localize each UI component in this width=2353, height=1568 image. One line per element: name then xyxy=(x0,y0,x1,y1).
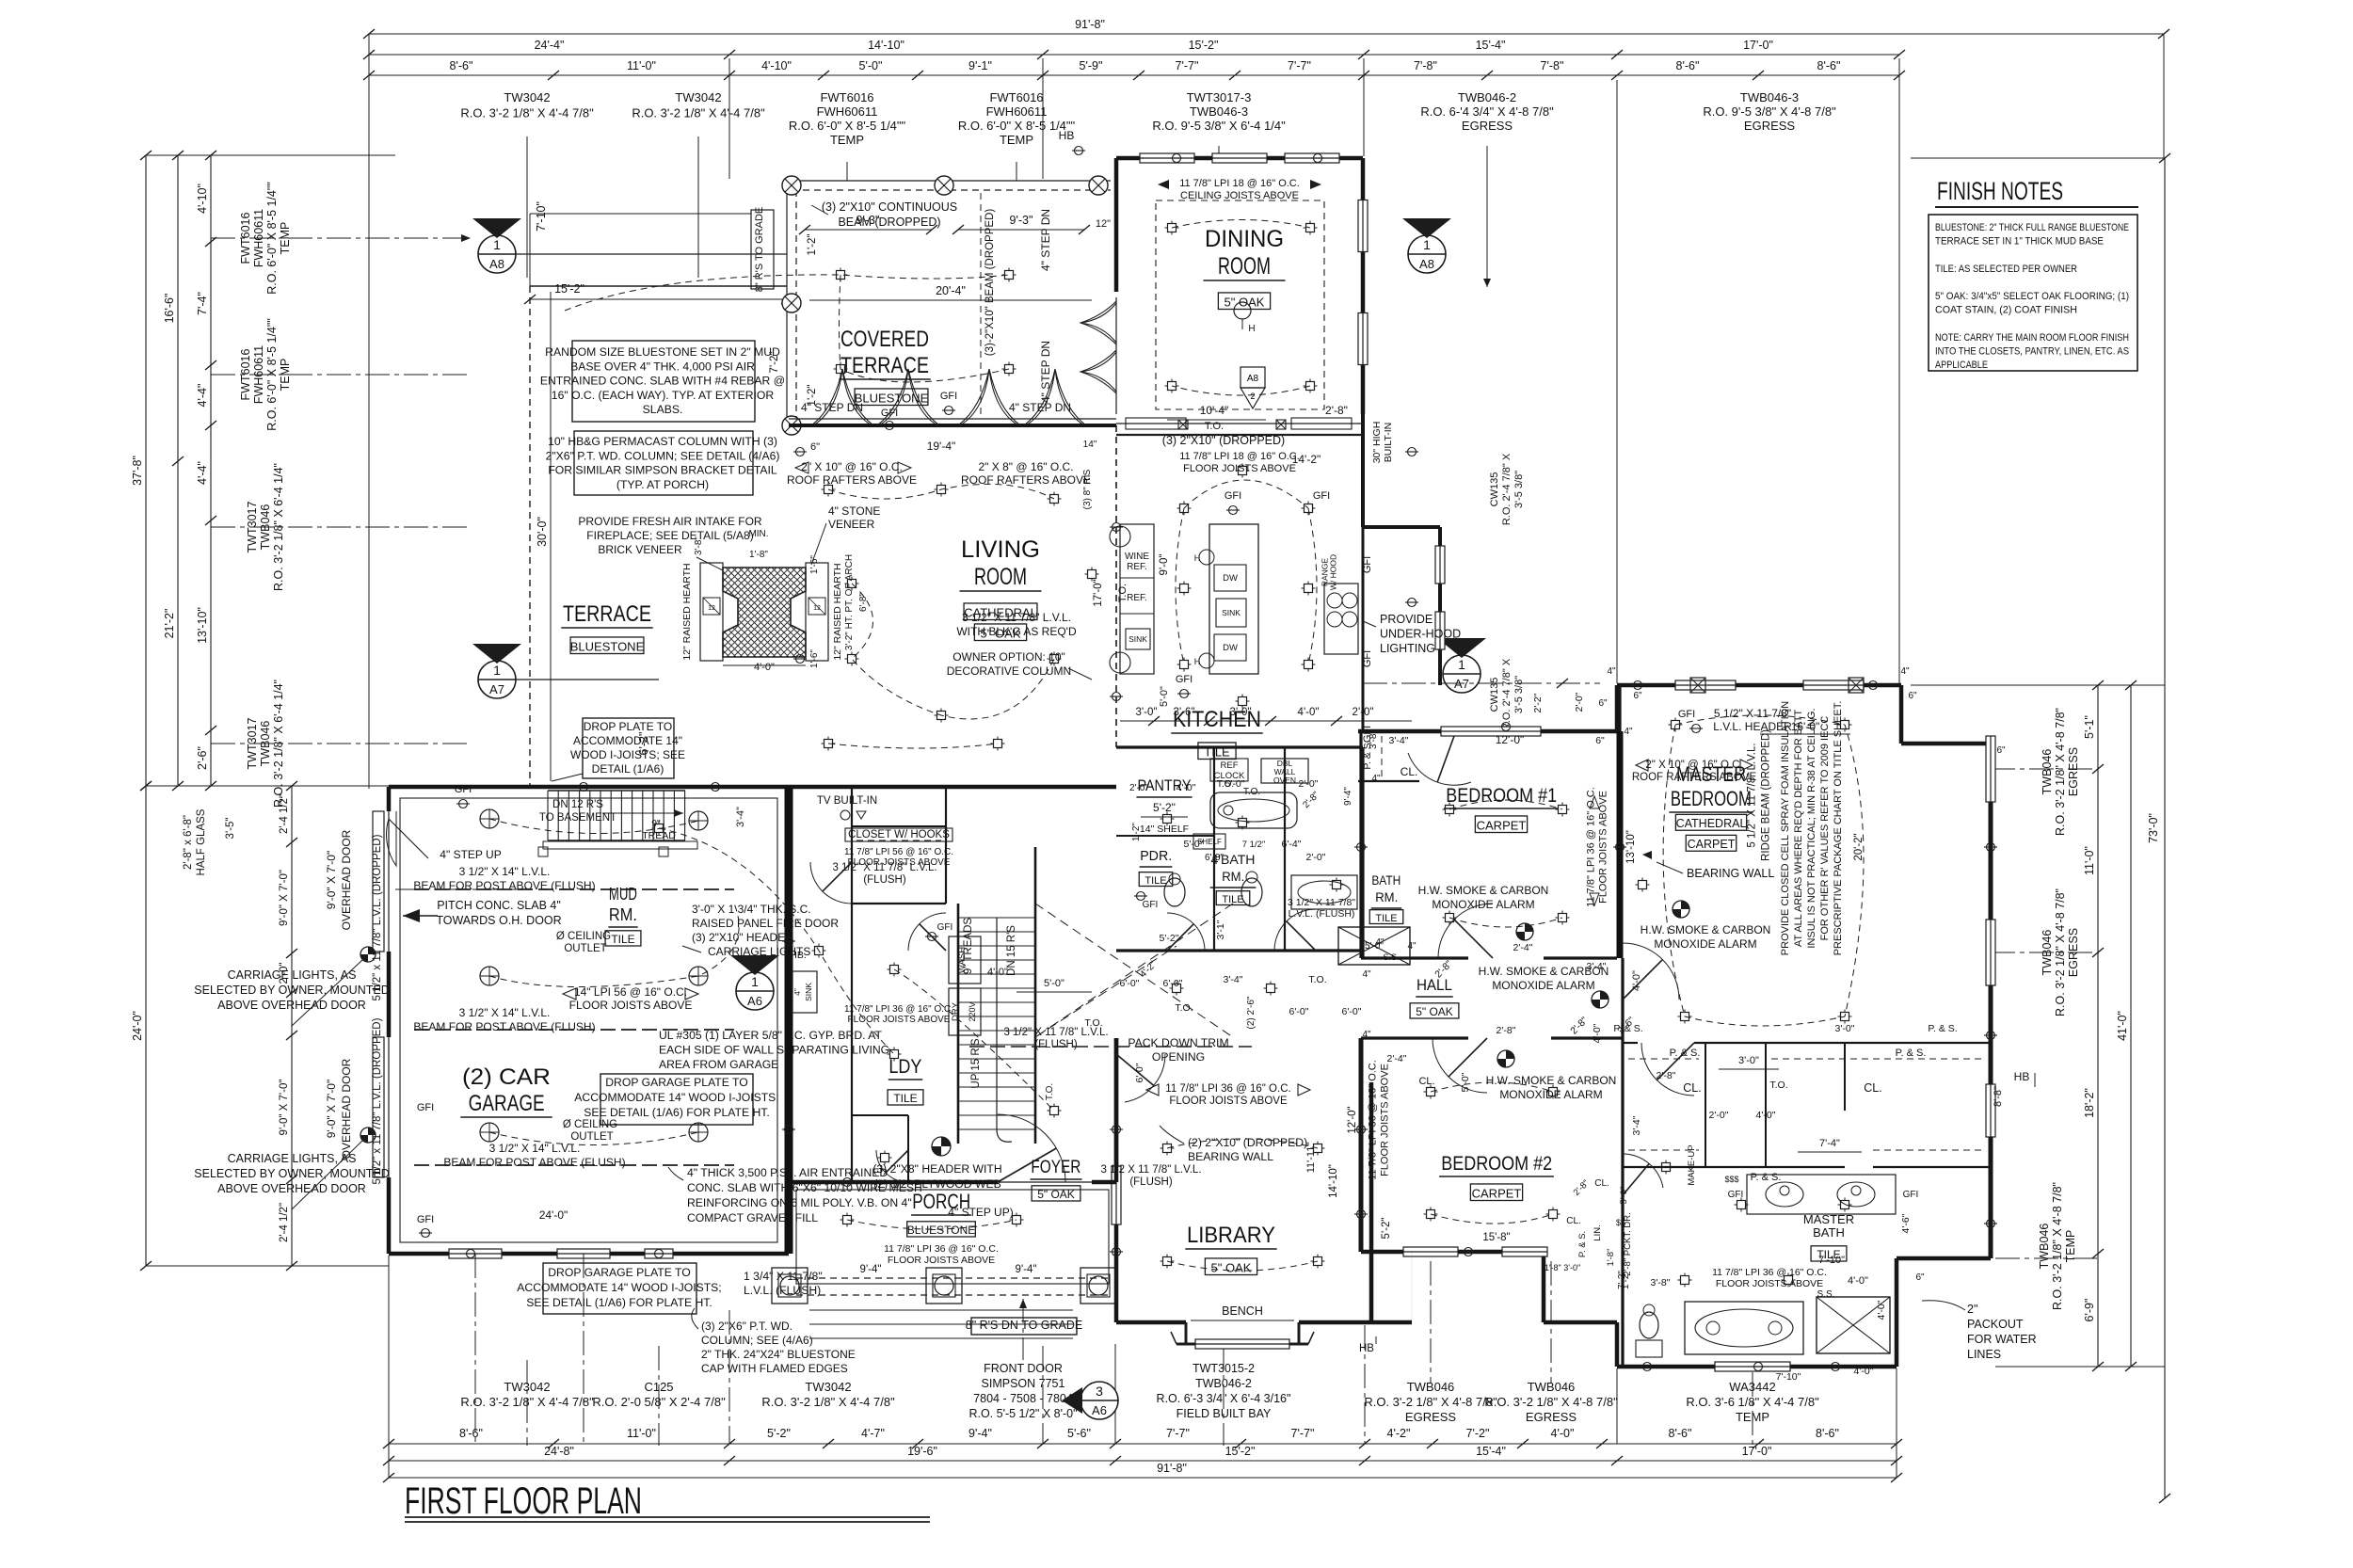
section marker 1/A8 right xyxy=(1408,235,1446,273)
wall master closet south xyxy=(1623,1166,1845,1168)
svg-text:FINISH NOTES: FINISH NOTES xyxy=(1937,177,2063,205)
svg-text:PANTRY: PANTRY xyxy=(1137,776,1191,794)
left top horizontal tie xyxy=(146,154,395,156)
svg-text:P. & S.: P. & S. xyxy=(1751,1172,1782,1183)
svg-text:21'-2": 21'-2" xyxy=(163,609,176,639)
svg-text:16" O.C. (EACH WAY). TYP. AT E: 16" O.C. (EACH WAY). TYP. AT EXTERIOR xyxy=(552,389,775,402)
wall mud-ldy top xyxy=(789,785,1116,790)
svg-text:2'-8": 2'-8" xyxy=(1325,404,1348,417)
wiring dining xyxy=(1156,200,1324,409)
svg-text:24'-0": 24'-0" xyxy=(131,1011,144,1041)
porch slab xyxy=(796,1190,1109,1284)
lights living room xyxy=(824,486,833,494)
svg-text:RM.: RM. xyxy=(1375,889,1398,904)
svg-text:4'-6": 4'-6" xyxy=(1900,1213,1912,1233)
svg-text:3'-0": 3'-0" xyxy=(1136,707,1158,718)
svg-text:H: H xyxy=(1248,324,1255,334)
svg-text:SEE DETAIL (1/A6) FOR PLATE HT: SEE DETAIL (1/A6) FOR PLATE HT. xyxy=(584,1106,770,1119)
mud sink xyxy=(792,971,817,1013)
wall closet hooks xyxy=(852,825,946,827)
svg-text:T.O.: T.O. xyxy=(1205,421,1224,432)
svg-text:(2) 2"X10" (DROPPED): (2) 2"X10" (DROPPED) xyxy=(1188,1136,1307,1149)
svg-text:BEAM (DROPPED): BEAM (DROPPED) xyxy=(838,216,940,229)
svg-text:11 7/8" LPI 18 @ 16" O.C.: 11 7/8" LPI 18 @ 16" O.C. xyxy=(1179,451,1300,462)
grade steps box xyxy=(751,210,774,289)
dimension chain left row2 xyxy=(177,155,179,786)
svg-text:GFI: GFI xyxy=(940,391,957,402)
svg-text:11 7/8" LPI 36 @ 16" O.C.: 11 7/8" LPI 36 @ 16" O.C. xyxy=(884,1243,999,1255)
svg-text:4": 4" xyxy=(1900,666,1910,677)
svg-text:2'-4": 2'-4" xyxy=(1387,1053,1407,1064)
svg-text:7'-4": 7'-4" xyxy=(196,292,209,315)
svg-text:7'-7": 7'-7" xyxy=(1288,59,1311,72)
window dining top 1 xyxy=(1140,153,1194,163)
svg-text:CW135: CW135 xyxy=(1489,678,1500,712)
svg-text:GFI: GFI xyxy=(1678,709,1695,720)
svg-text:BATH: BATH xyxy=(1371,872,1401,888)
svg-text:6'-0": 6'-0" xyxy=(1120,978,1140,989)
svg-text:3'-4": 3'-4" xyxy=(735,807,746,827)
svg-text:17'-0": 17'-0" xyxy=(1093,579,1104,606)
svg-text:9" TREADS: 9" TREADS xyxy=(963,918,974,974)
wall mud-ldy divider xyxy=(851,787,853,1035)
svg-text:2" X 10" @ 16" O.C.: 2" X 10" @ 16" O.C. xyxy=(1645,760,1742,771)
column C5 xyxy=(782,416,801,435)
svg-text:14": 14" xyxy=(1083,440,1097,450)
svg-text:1: 1 xyxy=(751,974,759,989)
svg-text:17'-0": 17'-0" xyxy=(1743,39,1773,52)
wall library xyxy=(1114,1038,1119,1322)
svg-text:GFI: GFI xyxy=(1362,650,1373,667)
svg-text:24'-8": 24'-8" xyxy=(544,1445,574,1458)
svg-text:BUILT-IN: BUILT-IN xyxy=(1383,423,1394,462)
door arch living north 2 xyxy=(958,369,1086,425)
svg-text:CARRIAGE LIGHTS, AS: CARRIAGE LIGHTS, AS xyxy=(228,968,357,982)
svg-text:7'-8": 7'-8" xyxy=(1414,59,1437,72)
svg-text:11 7/8" LPI 56 @ 16" O.C.: 11 7/8" LPI 56 @ 16" O.C. xyxy=(844,847,953,857)
svg-text:GFI: GFI xyxy=(417,1214,434,1225)
wall bedroom1 west xyxy=(1359,731,1362,958)
kitchen counter left xyxy=(1120,524,1154,674)
svg-text:FWH60611: FWH60611 xyxy=(986,104,1048,119)
svg-text:INSUL IS NOT PRACTICAL; MIN R-: INSUL IS NOT PRACTICAL; MIN R-38 AT CEIL… xyxy=(1806,708,1817,948)
svg-text:(3) 2"X8" HEADER WITH: (3) 2"X8" HEADER WITH xyxy=(872,1162,1001,1176)
svg-text:W/ HOOD: W/ HOOD xyxy=(1329,554,1338,590)
svg-text:BENCH: BENCH xyxy=(1222,1304,1263,1318)
svg-text:5" OAK: 3/4"x5" SELECT OAK FLO: 5" OAK: 3/4"x5" SELECT OAK FLOORING; (1) xyxy=(1935,291,2129,302)
fireplace hearth right xyxy=(806,563,828,661)
porch steps xyxy=(809,1309,1073,1311)
svg-text:SELECTED BY OWNER, MOUNTED: SELECTED BY OWNER, MOUNTED xyxy=(194,1167,389,1180)
svg-text:7'-10": 7'-10" xyxy=(535,201,548,232)
terrace boundary xyxy=(530,285,787,287)
wall stairs left xyxy=(957,904,960,1144)
svg-text:HB: HB xyxy=(1359,1343,1374,1354)
svg-text:1 3/4" X 11 7/8": 1 3/4" X 11 7/8" xyxy=(744,1270,823,1283)
svg-text:CW135: CW135 xyxy=(1489,472,1500,507)
carriage light symbol 1 xyxy=(360,947,376,962)
svg-text:PDR.: PDR. xyxy=(1140,848,1172,864)
window dining top 3 xyxy=(1285,153,1339,163)
svg-text:A8: A8 xyxy=(1419,257,1434,271)
svg-text:4": 4" xyxy=(1407,941,1417,952)
svg-text:4": 4" xyxy=(792,988,802,996)
svg-text:GFI: GFI xyxy=(1143,900,1159,910)
svg-text:COAT STAIN, (2) COAT FINISH: COAT STAIN, (2) COAT FINISH xyxy=(1935,305,2077,316)
svg-text:FWT6016: FWT6016 xyxy=(989,90,1043,104)
svg-text:AREA FROM GARAGE: AREA FROM GARAGE xyxy=(659,1058,778,1071)
svg-text:8'-6": 8'-6" xyxy=(459,1427,483,1440)
note random bluestone xyxy=(572,341,755,422)
svg-text:R.O. 3'-2 1/8" X 4'-8 7/8": R.O. 3'-2 1/8" X 4'-8 7/8" xyxy=(2054,708,2067,836)
window library west xyxy=(1112,1166,1121,1224)
section marker 1/A7 right xyxy=(1443,655,1481,693)
door foyer closet xyxy=(876,1150,908,1182)
svg-text:FOR SIMILAR SIMPSON BRACKET D: FOR SIMILAR SIMPSON BRACKET DETAIL xyxy=(548,464,777,477)
wiring living xyxy=(828,484,1054,748)
svg-text:3'-5 3/8": 3'-5 3/8" xyxy=(1513,471,1525,508)
svg-text:2'-4 1/2": 2'-4 1/2" xyxy=(279,1203,290,1242)
svg-text:37'-8": 37'-8" xyxy=(131,456,144,486)
svg-text:10'-4": 10'-4" xyxy=(1200,404,1229,417)
svg-text:1: 1 xyxy=(1423,237,1431,252)
svg-text:2'-4": 2'-4" xyxy=(1513,942,1533,953)
svg-text:14'-10": 14'-10" xyxy=(1328,1164,1339,1198)
window master north 2 xyxy=(1803,680,1864,690)
svg-text:18'-2": 18'-2" xyxy=(2083,1088,2096,1118)
svg-text:S.S.: S.S. xyxy=(1817,1289,1835,1300)
wall bedroom2 west xyxy=(1359,1038,1364,1252)
svg-text:3 1/2" X 14" L.V.L.: 3 1/2" X 14" L.V.L. xyxy=(459,865,551,878)
svg-text:5 1/2" X 11 7/8" L.V.L.: 5 1/2" X 11 7/8" L.V.L. xyxy=(1747,743,1758,847)
svg-text:PACK DOWN TRIM: PACK DOWN TRIM xyxy=(1128,1036,1228,1049)
svg-text:2'-0": 2'-0" xyxy=(1299,778,1319,790)
svg-text:EGRESS: EGRESS xyxy=(1405,1410,1457,1424)
dimension chain left 24'-0" xyxy=(145,786,147,1266)
svg-text:GFI: GFI xyxy=(1903,1190,1919,1200)
window bedroom2 south 1 xyxy=(1403,1247,1458,1256)
svg-text:BLUESTONE: BLUESTONE xyxy=(907,1224,975,1237)
svg-text:GFI: GFI xyxy=(1362,556,1373,573)
covered terrace beam left xyxy=(786,185,788,425)
svg-text:AT ALL AREAS WHERE REQ'D DEPTH: AT ALL AREAS WHERE REQ'D DEPTH FOR BATT xyxy=(1793,710,1804,948)
svg-text:13'-10": 13'-10" xyxy=(1625,830,1637,864)
svg-text:3'-4": 3'-4" xyxy=(1587,961,1607,972)
fireplace masonry xyxy=(723,568,806,657)
svg-text:11 7/8" LPI 18 @ 16" O.C.: 11 7/8" LPI 18 @ 16" O.C. xyxy=(1179,178,1300,189)
svg-text:(3) 2"X10" (DROPPED): (3) 2"X10" (DROPPED) xyxy=(1162,434,1285,447)
svg-text:4": 4" xyxy=(1371,774,1381,784)
finish notes box xyxy=(1929,215,2137,371)
svg-text:TILE: TILE xyxy=(1375,913,1397,924)
svg-text:5 1/2" x 11 7/8" L.V.L. (DROPP: 5 1/2" x 11 7/8" L.V.L. (DROPPED) xyxy=(372,1017,383,1184)
svg-text:1: 1 xyxy=(493,237,501,252)
svg-text:TO BASEMENT: TO BASEMENT xyxy=(539,812,616,824)
svg-text:FLOOR JOISTS ABOVE: FLOOR JOISTS ABOVE xyxy=(888,1255,995,1266)
svg-text:11 7/8" LPI 36 @ 16" O.C.: 11 7/8" LPI 36 @ 16" O.C. xyxy=(1165,1083,1290,1095)
svg-text:5'-0": 5'-0" xyxy=(1460,1072,1471,1092)
svg-text:DROP GARAGE PLATE TO: DROP GARAGE PLATE TO xyxy=(548,1266,691,1279)
pantry fixtures xyxy=(1210,759,1248,781)
svg-text:CEILING JOISTS ABOVE: CEILING JOISTS ABOVE xyxy=(1180,190,1299,201)
svg-text:14" SHELF: 14" SHELF xyxy=(1140,824,1189,835)
svg-text:BASE OVER 4" THK. 4,000 PSI AI: BASE OVER 4" THK. 4,000 PSI AIR xyxy=(570,360,755,373)
bedroom1 closet strip xyxy=(1358,780,1419,782)
svg-text:TWB046-3: TWB046-3 xyxy=(1190,104,1248,119)
svg-text:T.O.: T.O. xyxy=(1117,584,1128,602)
svg-text:HB: HB xyxy=(2014,1070,2030,1083)
svg-text:4'-0": 4'-0" xyxy=(1854,1366,1874,1377)
hall swing cross lines xyxy=(1035,904,1233,1037)
lights mudldy xyxy=(655,824,664,833)
svg-text:2"X6" P.T. WD. COLUMN; SEE DET: 2"X6" P.T. WD. COLUMN; SEE DETAIL (4/A6) xyxy=(546,449,780,462)
svg-text:TILE: TILE xyxy=(893,1092,917,1105)
svg-text:CL.: CL. xyxy=(1864,1081,1881,1095)
svg-text:6'-0": 6'-0" xyxy=(1134,1063,1145,1082)
svg-text:BLUESTONE: BLUESTONE xyxy=(570,639,645,653)
svg-text:CATHEDRAL: CATHEDRAL xyxy=(1676,817,1747,830)
svg-text:RANDOM SIZE BLUESTONE SET IN 2: RANDOM SIZE BLUESTONE SET IN 2" MUD xyxy=(545,345,780,359)
svg-text:BEARING WALL: BEARING WALL xyxy=(1188,1150,1273,1163)
svg-text:3'-5 3/8": 3'-5 3/8" xyxy=(1513,676,1525,713)
wall bedroom2 south xyxy=(1361,1250,1544,1255)
svg-text:T.O.: T.O. xyxy=(1175,1002,1193,1014)
svg-text:1'-6": 1'-6" xyxy=(809,649,820,668)
svg-text:4": 4" xyxy=(1607,666,1616,677)
svg-text:6": 6" xyxy=(1915,1272,1925,1283)
svg-text:9'-0" X 7'-0": 9'-0" X 7'-0" xyxy=(325,851,338,909)
svg-text:TREAD: TREAD xyxy=(642,830,676,841)
window kitchen right 2 xyxy=(1435,612,1445,649)
svg-text:R.O. 5'-5 1/2" X 8'-0": R.O. 5'-5 1/2" X 8'-0" xyxy=(968,1407,1077,1420)
svg-text:14'-2": 14'-2" xyxy=(1292,453,1321,466)
svg-text:DROP GARAGE PLATE TO: DROP GARAGE PLATE TO xyxy=(605,1076,748,1089)
svg-text:16'-0": 16'-0" xyxy=(1791,720,1820,733)
svg-text:UNDER-HOOD: UNDER-HOOD xyxy=(1380,628,1461,641)
dimension chain bottom row2 xyxy=(389,1460,1897,1462)
svg-text:4'-4": 4'-4" xyxy=(196,461,209,485)
lights bed2 xyxy=(1427,1088,1435,1096)
svg-text:9'-4": 9'-4" xyxy=(968,1427,992,1440)
master bath fixtures xyxy=(1685,1302,1803,1354)
svg-text:7'-7": 7'-7" xyxy=(1291,1427,1315,1440)
svg-text:A6: A6 xyxy=(747,994,762,1008)
svg-text:12" RAISED HEARTH: 12" RAISED HEARTH xyxy=(681,563,693,660)
svg-text:BATH: BATH xyxy=(1813,1225,1845,1240)
svg-text:30'-0": 30'-0" xyxy=(536,517,549,547)
svg-text:DN 15 R'S: DN 15 R'S xyxy=(1006,925,1017,976)
svg-text:11 7/8" LPI 36 @ 16" O.C.: 11 7/8" LPI 36 @ 16" O.C. xyxy=(1368,1060,1379,1180)
svg-text:REF: REF xyxy=(1221,760,1239,771)
svg-text:GFI: GFI xyxy=(937,922,953,933)
library bay xyxy=(1185,1322,1188,1344)
svg-text:CARPET: CARPET xyxy=(1472,1186,1522,1200)
svg-text:FLOOR JOISTS ABOVE: FLOOR JOISTS ABOVE xyxy=(1380,1064,1391,1176)
svg-text:15'-4": 15'-4" xyxy=(1476,39,1506,52)
porch column 1 xyxy=(772,1268,808,1304)
svg-text:5 1/2" x 11 7/8" L.V.L. (DROPP: 5 1/2" x 11 7/8" L.V.L. (DROPPED) xyxy=(372,834,383,1000)
svg-text:24'-0": 24'-0" xyxy=(539,1208,568,1222)
svg-text:4" STEP UP: 4" STEP UP xyxy=(440,848,501,861)
lights dining xyxy=(1168,224,1176,232)
svg-text:2'-2": 2'-2" xyxy=(1532,693,1544,712)
svg-text:4'-0": 4'-0" xyxy=(1756,1110,1776,1121)
dimension chain left garage xyxy=(291,786,293,1266)
svg-text:H: H xyxy=(1194,553,1201,563)
wall bath west-step xyxy=(1615,1322,1620,1367)
lights bed1 xyxy=(1446,806,1454,814)
svg-text:ABOVE OVERHEAD DOOR: ABOVE OVERHEAD DOOR xyxy=(217,1182,366,1195)
wall bath divider 1 xyxy=(1213,747,1215,951)
svg-text:11'-11": 11'-11" xyxy=(1305,1143,1317,1174)
svg-text:6": 6" xyxy=(1598,698,1608,709)
dimension chain top overall 91'-8" xyxy=(369,33,2164,35)
svg-text:GARAGE: GARAGE xyxy=(469,1091,545,1116)
lights master xyxy=(1672,721,1680,729)
svg-text:A6: A6 xyxy=(1092,1403,1107,1417)
porch column 2 xyxy=(926,1268,962,1304)
svg-text:9'-4": 9'-4" xyxy=(1016,1264,1037,1275)
svg-text:P. & S.: P. & S. xyxy=(1896,1048,1927,1059)
svg-text:8'-6": 8'-6" xyxy=(1676,59,1700,72)
garage inner line xyxy=(400,798,777,1242)
svg-text:30" HIGH: 30" HIGH xyxy=(1371,422,1383,464)
section marker 1/A6 garage xyxy=(736,972,774,1010)
column C2 xyxy=(935,176,953,195)
dimension chain top row 2 xyxy=(369,54,1899,56)
window garage bottom 1 xyxy=(449,1249,502,1258)
stair main xyxy=(958,917,1035,919)
svg-text:4" STEP UP): 4" STEP UP) xyxy=(948,1206,1013,1219)
wall bedroom1-master bearing xyxy=(1617,731,1624,958)
svg-text:EACH SIDE OF WALL SEPARATING L: EACH SIDE OF WALL SEPARATING LIVING xyxy=(659,1044,889,1057)
lights porch xyxy=(843,1216,852,1224)
svg-text:CARRIAGE LIGHTS, AS: CARRIAGE LIGHTS, AS xyxy=(228,1152,357,1165)
svg-text:11'-0": 11'-0" xyxy=(627,1427,656,1440)
svg-text:FLOOR JOISTS ABOVE: FLOOR JOISTS ABOVE xyxy=(1598,791,1609,904)
svg-text:5 1/2" X 11 7/8": 5 1/2" X 11 7/8" xyxy=(1714,707,1791,720)
svg-text:PROVIDE: PROVIDE xyxy=(1380,613,1433,626)
svg-text:41'-0": 41'-0" xyxy=(2116,1011,2129,1041)
dining detail marker xyxy=(1241,367,1265,388)
svg-text:REF.: REF. xyxy=(1127,593,1147,603)
svg-text:MAKE-UP: MAKE-UP xyxy=(1687,1144,1697,1185)
svg-text:R.O. 6-'4 3/4" X 4'-8 7/8": R.O. 6-'4 3/4" X 4'-8 7/8" xyxy=(1420,104,1554,119)
svg-text:DROP PLATE TO: DROP PLATE TO xyxy=(584,720,672,733)
svg-text:P. & S.: P. & S. xyxy=(1577,1231,1588,1257)
svg-text:5" OAK: 5" OAK xyxy=(1416,1005,1453,1018)
svg-text:T.O.: T.O. xyxy=(1308,974,1326,985)
overhead door 1 xyxy=(373,811,384,952)
svg-text:4'-0": 4'-0" xyxy=(1551,1427,1575,1440)
wall dining left xyxy=(1114,158,1119,292)
svg-text:3'-8": 3'-8" xyxy=(1651,1277,1671,1288)
stair to basement xyxy=(547,791,549,840)
svg-text:7 1/2": 7 1/2" xyxy=(1242,840,1266,850)
svg-text:DW: DW xyxy=(1223,643,1238,653)
svg-text:6": 6" xyxy=(1633,691,1642,701)
svg-text:PROVIDE FRESH AIR INTAKE FOR: PROVIDE FRESH AIR INTAKE FOR xyxy=(578,515,761,528)
svg-text:5'-2": 5'-2" xyxy=(767,1427,791,1440)
svg-text:CL.: CL. xyxy=(1683,1081,1701,1095)
svg-text:15'-4": 15'-4" xyxy=(1476,1445,1506,1458)
svg-text:H.W. SMOKE & CARBON: H.W. SMOKE & CARBON xyxy=(1486,1074,1617,1087)
svg-text:2'-0": 2'-0" xyxy=(1306,852,1326,863)
svg-text:PROVIDE CLOSED CELL SPRAY FOAM: PROVIDE CLOSED CELL SPRAY FOAM INSULATIO… xyxy=(1780,701,1791,955)
svg-text:DN 12 R'S: DN 12 R'S xyxy=(552,799,603,810)
svg-text:7'-10": 7'-10" xyxy=(1776,1371,1801,1383)
svg-text:9'-0" X 7'-0": 9'-0" X 7'-0" xyxy=(279,1080,290,1136)
svg-text:DETAIL (1/A6): DETAIL (1/A6) xyxy=(592,762,664,776)
svg-text:HALF GLASS: HALF GLASS xyxy=(196,808,207,875)
kitchen island xyxy=(1209,524,1258,674)
window bedroom2 south 2 xyxy=(1502,1247,1547,1256)
window bath south xyxy=(1715,1362,1790,1371)
svg-text:OVERHEAD DOOR: OVERHEAD DOOR xyxy=(340,1058,353,1159)
svg-text:OVERHEAD DOOR: OVERHEAD DOOR xyxy=(340,829,353,930)
lights masterbath xyxy=(1681,1276,1689,1285)
svg-text:GFI: GFI xyxy=(417,1102,434,1113)
svg-text:(TYP. AT PORCH): (TYP. AT PORCH) xyxy=(616,478,709,491)
svg-text:OPENING: OPENING xyxy=(1152,1050,1205,1064)
svg-text:5'-0": 5'-0" xyxy=(1184,839,1204,850)
svg-text:A8: A8 xyxy=(1247,374,1259,384)
svg-text:3 1/2" X 11 7/8" L.V.L.: 3 1/2" X 11 7/8" L.V.L. xyxy=(832,862,936,873)
svg-text:3 1/2" X 14" L.V.L.: 3 1/2" X 14" L.V.L. xyxy=(459,1006,551,1019)
svg-text:2'-8" PCKT. DR.: 2'-8" PCKT. DR. xyxy=(1623,1212,1633,1275)
svg-text:(2) CAR: (2) CAR xyxy=(462,1064,551,1090)
wall kitchen step right xyxy=(1361,414,1365,527)
svg-text:5'-0": 5'-0" xyxy=(1225,778,1245,790)
svg-text:11 7/8" LPI 36 @ 16" O.C.: 11 7/8" LPI 36 @ 16" O.C. xyxy=(1712,1267,1827,1278)
svg-text:5'-2": 5'-2" xyxy=(1381,1218,1392,1240)
svg-text:3'-0": 3'-0" xyxy=(1738,1055,1759,1066)
svg-text:Ø CEILING: Ø CEILING xyxy=(556,931,611,942)
wall garage bottom xyxy=(389,1252,789,1256)
note permacast column xyxy=(574,431,753,495)
svg-text:SINK: SINK xyxy=(1128,634,1147,644)
svg-text:14" LPI 56 @ 16" O.C.: 14" LPI 56 @ 16" O.C. xyxy=(574,985,687,999)
wall kitchen south xyxy=(1116,745,1363,748)
top extension lines xyxy=(728,58,730,179)
wall library-bedroom2 seam xyxy=(1371,1320,1412,1325)
svg-text:TWT3017-3: TWT3017-3 xyxy=(1187,90,1252,104)
svg-text:T.O.: T.O. xyxy=(1769,1080,1787,1091)
svg-text:3'-6": 3'-6" xyxy=(1174,707,1195,718)
svg-text:CAP WITH FLAMED EDGES: CAP WITH FLAMED EDGES xyxy=(701,1362,848,1375)
svg-text:2'-0": 2'-0" xyxy=(1709,1110,1729,1121)
svg-text:RM.: RM. xyxy=(1222,869,1244,884)
svg-text:14'-10": 14'-10" xyxy=(868,39,904,52)
wiring center xyxy=(659,828,1054,1111)
window dining right xyxy=(1358,200,1368,252)
svg-text:TILE: TILE xyxy=(611,933,634,946)
svg-text:R.O. 6'-0" X 8'-5 1/4"": R.O. 6'-0" X 8'-5 1/4"" xyxy=(789,119,906,133)
svg-text:TWB046-2: TWB046-2 xyxy=(1458,90,1516,104)
svg-text:3 1/2" X 11 7/8" L.V.L.: 3 1/2" X 11 7/8" L.V.L. xyxy=(1003,1027,1108,1038)
svg-text:1'-2": 1'-2" xyxy=(807,234,818,256)
svg-text:11'-0": 11'-0" xyxy=(2083,846,2096,875)
svg-text:BEARING WALL: BEARING WALL xyxy=(1687,867,1774,880)
svg-text:7804 - 7508 - 7804: 7804 - 7508 - 7804 xyxy=(973,1392,1073,1405)
svg-text:REINFORCING ON 6 MIL POLY. V.B: REINFORCING ON 6 MIL POLY. V.B. ON 4" xyxy=(687,1196,912,1209)
svg-text:(FLUSH): (FLUSH) xyxy=(863,874,906,886)
dimension chain left row3 xyxy=(210,155,212,786)
svg-text:HALL: HALL xyxy=(1417,976,1452,994)
svg-text:TW3042: TW3042 xyxy=(805,1380,851,1394)
svg-text:TV BUILT-IN: TV BUILT-IN xyxy=(817,795,877,807)
svg-text:CL.: CL. xyxy=(1566,1216,1581,1226)
